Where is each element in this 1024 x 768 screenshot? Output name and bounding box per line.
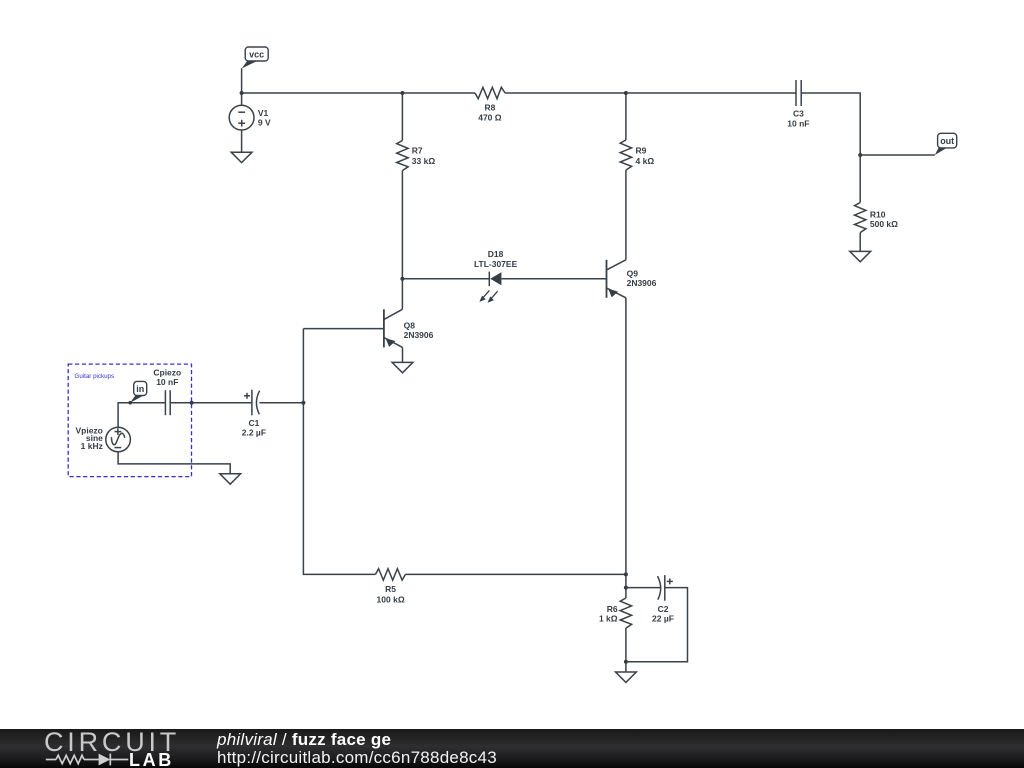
svg-text:Q8: Q8 bbox=[404, 320, 416, 330]
resistor R7 bbox=[397, 141, 436, 171]
wire R9 top bbox=[625, 93, 627, 140]
node junction pickup box edge bbox=[190, 401, 194, 405]
transistor Q8 (PNP 2N3906) bbox=[384, 309, 434, 347]
guitar pickups dashed box bbox=[68, 364, 191, 477]
svg-text:100 kΩ: 100 kΩ bbox=[377, 594, 405, 604]
flag VCC bbox=[242, 47, 269, 69]
svg-text:C1: C1 bbox=[248, 418, 259, 428]
wire LED right to Q9 base bbox=[501, 278, 606, 280]
voltage source V1 bbox=[229, 105, 271, 130]
capacitor C1 (polarized) bbox=[242, 390, 266, 438]
svg-text:R7: R7 bbox=[412, 146, 423, 156]
wire R10 top bbox=[859, 155, 861, 203]
wire left column (Q8 base to R5) bbox=[303, 329, 375, 575]
wire V1 bottom to ground bbox=[241, 130, 243, 152]
wire C2 right loop bbox=[626, 588, 688, 662]
svg-text:1 kHz: 1 kHz bbox=[81, 441, 103, 451]
wire out node to flag bbox=[860, 154, 935, 156]
wire LED left bbox=[402, 278, 489, 280]
footer title bbox=[217, 730, 391, 750]
wire top rail left (VCC/V1 to R8) bbox=[242, 92, 475, 94]
svg-text:2N3906: 2N3906 bbox=[627, 278, 657, 288]
wire Q8 collector column bbox=[401, 279, 403, 310]
resistor R10 bbox=[855, 203, 899, 233]
node junction C2 branch bbox=[624, 586, 628, 590]
capacitor C2 (polarized) bbox=[652, 575, 674, 624]
svg-text:Guitar pickups: Guitar pickups bbox=[75, 373, 115, 380]
svg-text:D18: D18 bbox=[488, 249, 504, 259]
svg-text:Q9: Q9 bbox=[627, 268, 639, 278]
svg-text:22 µF: 22 µF bbox=[652, 614, 674, 624]
svg-text:Cpiezo: Cpiezo bbox=[153, 368, 181, 378]
node junction R9 top bbox=[624, 91, 628, 95]
wire Q8 base bbox=[303, 328, 383, 330]
wire R7 top bbox=[401, 93, 403, 141]
node junction LED left bbox=[400, 277, 404, 281]
svg-text:10 nF: 10 nF bbox=[156, 377, 178, 387]
wire VCC stem bbox=[241, 68, 243, 93]
resistor R6 bbox=[599, 598, 632, 628]
wire R6 bottom bbox=[625, 628, 627, 662]
svg-text:C3: C3 bbox=[793, 109, 804, 119]
footer url bbox=[217, 748, 497, 768]
svg-text:vcc: vcc bbox=[249, 50, 264, 60]
resistor R5 bbox=[375, 569, 405, 605]
ground guitar pickups bbox=[220, 474, 241, 484]
node junction V1 top bbox=[240, 91, 244, 95]
capacitor C3 bbox=[787, 80, 809, 129]
wire R6 column top bbox=[625, 574, 627, 598]
transistor Q9 (PNP 2N3906) bbox=[607, 260, 657, 298]
svg-text:R9: R9 bbox=[636, 146, 647, 156]
wire pickup bottom to ground bbox=[118, 452, 230, 474]
svg-text:470 Ω: 470 Ω bbox=[478, 112, 502, 122]
wire Q9 emitter column bbox=[625, 298, 627, 575]
resistor R9 bbox=[620, 140, 654, 170]
svg-text:in: in bbox=[136, 384, 144, 394]
wire R5 right to Q9 emitter column bbox=[406, 573, 626, 575]
ground below Q8 bbox=[392, 362, 413, 372]
ground below V1 bbox=[231, 152, 252, 162]
node junction C1 right bbox=[301, 401, 305, 405]
svg-text:LTL-307EE: LTL-307EE bbox=[474, 259, 518, 269]
flag out bbox=[935, 133, 957, 155]
wire top rail middle (R8 to C3) bbox=[505, 92, 796, 94]
node junction bottom bbox=[624, 660, 628, 664]
svg-text:out: out bbox=[940, 136, 954, 146]
wire R9 bottom to Q9 collector bbox=[625, 170, 627, 260]
node junction R7 top bbox=[400, 91, 404, 95]
svg-text:2.2 µF: 2.2 µF bbox=[242, 428, 266, 438]
CircuitLab logo text bbox=[44, 727, 180, 758]
svg-text:4 kΩ: 4 kΩ bbox=[636, 156, 655, 166]
wire bottom ground stem bbox=[625, 662, 627, 672]
wire C2 branch left bbox=[626, 587, 660, 589]
ground below R10 bbox=[850, 251, 871, 261]
ground bottom bbox=[616, 672, 637, 682]
flag in bbox=[130, 381, 147, 402]
svg-text:R6: R6 bbox=[607, 604, 618, 614]
footer bar bbox=[0, 729, 1024, 768]
wire Q8 emitter to ground bbox=[402, 347, 404, 362]
svg-text:V1: V1 bbox=[258, 108, 269, 118]
wire pickup top bbox=[118, 403, 165, 428]
wire Cpiezo to C1 bbox=[170, 402, 252, 404]
node junction in tip bbox=[128, 401, 132, 405]
svg-text:500 kΩ: 500 kΩ bbox=[870, 219, 898, 229]
source Vpiezo (sine) bbox=[75, 425, 130, 451]
wire C1 right bbox=[259, 402, 303, 404]
wire R10 bottom bbox=[859, 233, 861, 252]
svg-text:R10: R10 bbox=[870, 210, 886, 220]
capacitor Cpiezo bbox=[153, 368, 181, 416]
svg-text:R5: R5 bbox=[385, 584, 396, 594]
svg-text:R8: R8 bbox=[484, 102, 495, 112]
svg-text:1 kΩ: 1 kΩ bbox=[599, 614, 618, 624]
svg-text:33 kΩ: 33 kΩ bbox=[412, 156, 436, 166]
resistor R8 bbox=[475, 87, 505, 122]
svg-text:C2: C2 bbox=[658, 604, 669, 614]
wire top rail right (C3 to corner down) bbox=[801, 93, 860, 155]
svg-text:2N3906: 2N3906 bbox=[404, 330, 434, 340]
node junction out bbox=[858, 153, 862, 157]
LED D18 bbox=[474, 249, 518, 303]
node junction R5 right bbox=[624, 572, 628, 576]
wire V1 top bbox=[241, 93, 243, 105]
wire R7 bottom to LED node bbox=[401, 171, 403, 279]
svg-text:10 nF: 10 nF bbox=[787, 119, 809, 129]
svg-text:9 V: 9 V bbox=[258, 118, 271, 128]
